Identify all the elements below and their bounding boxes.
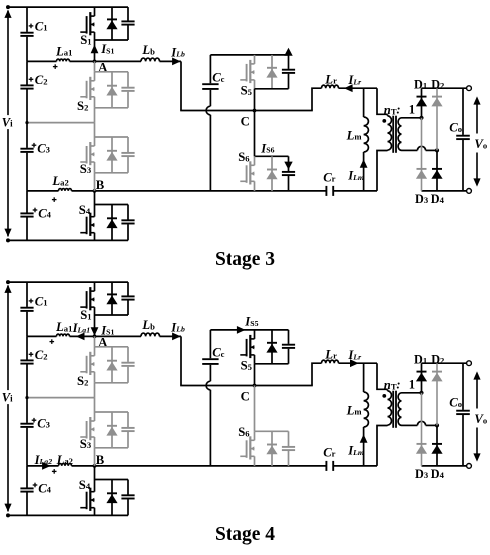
transistor S3 (stage 4) [94,398,96,412]
current arrow ILb (stage 4) [172,333,181,341]
diode D4 (stage 4) [436,425,438,466]
wire node C row (stage 3) [180,110,313,112]
wire secondary top to rectifier (stage 4) [402,392,422,394]
transformer T1 core (stage 3) [392,116,394,153]
inductor La2 (stage 4) [59,464,72,466]
diode S1 body (stage 4) [111,282,113,315]
transformer T1 secondary winding (stage 3) [398,118,401,151]
wire S1 source to node A (stage 4) [94,315,96,336]
diode S1 body (stage 3) [111,7,113,40]
wire ILb corner to node C (stage 4) [180,336,182,385]
wire rectifier top rail (stage 3) [422,87,470,89]
transformer T1 secondary winding (stage 4) [398,393,401,426]
capacitor S1 snubber (stage 3) [127,7,129,21]
polarity mark plus La2 (stage 4) [52,470,57,472]
capacitor C2 (stage 3) [26,61,28,84]
current arrow ILr (stage 4) [350,359,359,367]
capacitor S5 snubber (stage 4) [288,330,290,344]
wire mid rail (stage 4) [27,397,95,399]
capacitor S3 snubber (stage 4) [127,412,129,427]
transistor S5 (stage 4) [240,354,246,356]
node top-left junction (stage 3) [6,5,10,9]
wire Lr to transformer (stage 3) [339,87,378,89]
wire Lr to transformer (stage 4) [339,362,378,364]
capacitor Cc (stage 4) [209,330,211,358]
polarity mark plus La1 (stage 4) [50,341,55,343]
transistor S6 (stage 4) [240,455,246,457]
wire S5 block bottom (stage 4) [255,363,289,365]
svg-text::: : [396,102,400,116]
capacitor C1 (stage 4) [26,282,28,307]
diode S4 body (stage 3) [111,205,113,241]
polarity mark plus La2 (stage 3) [52,199,57,201]
capacitor S5 snubber (stage 3) [288,55,290,69]
voltage arrow Vo (stage 4) [476,374,478,408]
transistor S2 (stage 4) [94,336,96,346]
transformer T1 core (stage 4) [392,391,394,428]
capacitor Co (stage 3) [462,88,464,135]
inductor Lr (stage 4) [322,360,339,363]
inductor Lm (stage 4) [363,363,365,392]
transformer T1 primary winding (stage 3) [387,114,389,116]
current arrow IS1 (stage 3) [91,45,99,54]
output terminal top (stage 4) [467,361,472,366]
wire bottom rail (stage 4) [8,514,128,516]
wire node B row (stage 4) [27,465,59,467]
diode S4 body (stage 4) [111,480,113,516]
wire node A row (stage 4) [27,335,57,337]
voltage arrow Vo (stage 3) [476,99,478,133]
diode S3 body (stage 3) [111,137,113,173]
capacitor Cr (stage 3) [325,186,327,196]
diode S3 body (stage 4) [111,412,113,448]
capacitor C2 (stage 4) [26,336,28,359]
diode S2 body (stage 4) [111,347,113,383]
capacitor C3 (stage 3) [26,123,28,148]
current arrow ILr (stage 3) [344,84,353,92]
wire secondary top to rectifier (stage 3) [402,117,422,119]
wire node C row (stage 4) [180,385,313,387]
inductor La1 (stage 3) [57,59,70,61]
capacitor S4 snubber (stage 3) [127,205,129,220]
transistor S1 (stage 4) [80,306,86,308]
wire Cc hop over node C row (stage 3) [206,106,210,115]
wire bottom rail (stage 3) [8,239,128,241]
capacitor S2 snubber (stage 4) [127,347,129,362]
transistor S5 (stage 3) [240,79,246,81]
node bottom-left junction (stage 3) [6,238,10,242]
wire corner up to Lr (stage 4) [312,363,322,385]
inductor Lr (stage 3) [322,85,339,88]
current arrow ILm (stage 4) [360,434,368,443]
wire rectifier top rail (stage 4) [422,362,470,364]
diode D4 (stage 3) [436,150,438,191]
diode D3 (stage 4) [421,393,423,466]
inductor Lb (stage 4) [141,333,160,336]
diode D3 (stage 3) [421,118,423,191]
wire ILb corner to node C (stage 3) [180,61,182,110]
svg-text:Stage 4: Stage 4 [215,524,275,545]
wire S5 block bottom (stage 3) [255,88,289,90]
diode S6 body (stage 4) [271,431,273,466]
wire S6 block top (stage 3) [255,155,289,157]
wire S5 block top rail (stage 3) [210,54,288,56]
voltage arrow Vi (stage 4) [7,286,9,391]
capacitor Cr (stage 4) [325,461,327,471]
diode D2 (stage 3) [436,88,438,150]
svg-text:C: C [241,114,250,128]
wire top rail (stage 4) [8,281,128,283]
transformer T1 polarity dot primary (stage 3) [382,119,386,123]
wire node A row (stage 3) [27,60,57,62]
wire S1 source to node A (stage 3) [94,40,96,61]
inductor La1 (stage 4) [57,334,70,336]
transformer T1 primary winding (stage 4) [387,389,389,391]
node bottom-left junction (stage 4) [6,513,10,517]
current arrow IS6 (stage 3) [284,162,292,170]
capacitor C1 (stage 3) [26,7,28,32]
transistor S6 (stage 3) [240,180,246,182]
wire top rail (stage 3) [8,6,128,8]
transistor S3 (stage 3) [94,123,96,137]
capacitor C4 (stage 3) [26,191,28,213]
wire mid rail (stage 3) [27,122,95,124]
capacitor S4 snubber (stage 4) [127,480,129,495]
diode D1 (stage 4) [421,363,423,393]
capacitor S2 snubber (stage 3) [127,72,129,87]
svg-text:B: B [96,178,105,192]
inductor La2 (stage 3) [59,189,72,191]
capacitor S1 snubber (stage 4) [127,282,129,296]
svg-text:1: 1 [409,102,415,116]
transistor S4 (stage 3) [94,191,96,205]
capacitor C3 (stage 4) [26,398,28,423]
diode S5 body (stage 4) [271,330,273,364]
output terminal bottom (stage 4) [467,464,472,469]
wire transformer primary branch (stage 3) [377,88,388,114]
svg-text:C: C [241,389,250,403]
capacitor Co (stage 4) [462,363,464,410]
svg-text:B: B [96,453,105,467]
wire transformer primary branch (stage 4) [377,363,388,389]
node A label (stage 3) [93,60,97,64]
diode S6 body (stage 3) [271,156,273,191]
diode D1 (stage 3) [421,88,423,118]
transistor S1 (stage 3) [80,31,86,33]
wire node B row (stage 3) [27,190,59,192]
diode S2 body (stage 3) [111,72,113,108]
capacitor Cc (stage 3) [209,55,211,83]
wire node C to S6 (stage 4) [254,386,256,432]
voltage arrow Vi (stage 3) [7,11,9,116]
transistor S4 (stage 4) [94,466,96,480]
current arrow ILa1 (stage 4) [76,333,85,341]
inductor Lm (stage 3) [363,88,365,117]
current arrow ILa2 (stage 4) [42,462,51,470]
node B label (stage 4) [93,464,97,468]
wire secondary bottom to rectifier with hop (stage 3) [402,149,418,151]
transistor S2 (stage 3) [94,61,96,71]
output terminal top (stage 3) [467,86,472,91]
current arrow ILb (stage 3) [172,58,181,66]
current arrow IS1 (stage 4) [91,327,99,336]
wire node C to S6 (stage 3) [254,111,256,157]
wire Cc hop over node C row (stage 4) [206,381,210,390]
wire S5 block top rail (stage 4) [210,329,288,331]
node C junction (stage 3) [253,109,257,113]
wire rectifier bottom rail (stage 3) [422,190,470,192]
svg-text::: : [396,377,400,391]
current arrow IS5 (stage 4) [237,326,246,334]
capacitor S6 snubber (stage 4) [288,431,290,446]
capacitor S6 snubber (stage 3) [288,156,290,171]
wire rectifier bottom rail (stage 4) [422,465,470,467]
node top-left junction (stage 4) [6,280,10,284]
svg-text:1: 1 [409,377,415,391]
current arrow S5 capacitor (stage 3) [284,48,292,56]
diode S5 body (stage 3) [271,55,273,89]
inductor Lb (stage 3) [141,58,160,61]
transformer T1 polarity dot primary (stage 4) [382,394,386,398]
diode D2 (stage 4) [436,363,438,425]
wire secondary bottom to rectifier with hop (stage 4) [402,424,418,426]
polarity mark plus La1 (stage 3) [53,66,58,68]
current arrow ILm (stage 3) [360,159,368,168]
node A label (stage 4) [93,335,97,339]
wire S6 block top (stage 4) [255,430,289,432]
capacitor C4 (stage 4) [26,466,28,488]
node B label (stage 3) [93,189,97,193]
output terminal bottom (stage 3) [467,189,472,194]
svg-text:Stage 3: Stage 3 [215,249,275,270]
capacitor S3 snubber (stage 3) [127,137,129,152]
wire corner up to Lr (stage 3) [312,88,322,110]
node C junction (stage 4) [253,384,257,388]
